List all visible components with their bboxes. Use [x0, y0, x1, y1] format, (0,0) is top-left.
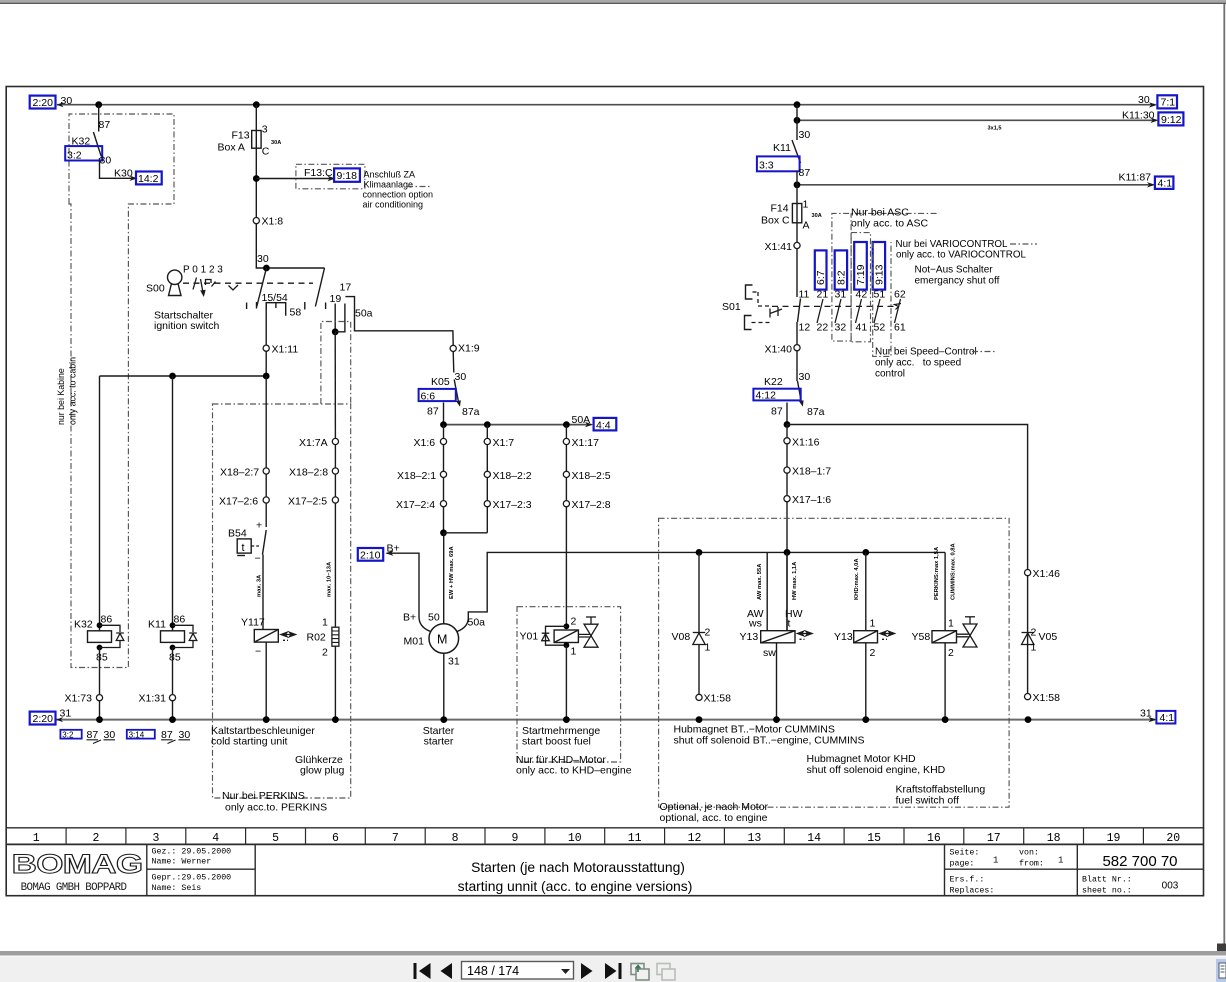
position check 3 [229, 285, 239, 290]
viewer top toolbar edge [0, 0, 1226, 4]
icon next view (disabled) [657, 964, 675, 981]
svg-text:9:18: 9:18 [337, 170, 358, 182]
svg-text:B54: B54 [228, 528, 247, 540]
contact blade 15/54 [257, 268, 267, 307]
arrow into 4:1 bottom [1149, 717, 1157, 722]
relay contact K32 (top) wire from bus [98, 105, 100, 132]
connector X17-2:3 [484, 499, 532, 511]
svg-text:2: 2 [571, 616, 577, 628]
wire K11 coil to rail [172, 648, 174, 720]
nav button prev page [441, 963, 453, 979]
wire B+ from motor [387, 553, 431, 631]
svg-text:X1:31: X1:31 [139, 693, 167, 705]
wire bracket to X1:11 [265, 303, 267, 376]
nav button last page [605, 963, 622, 979]
S01 actuation dashed line [772, 305, 896, 307]
svg-text:X1:46: X1:46 [1033, 568, 1061, 580]
svg-text:Klimaanlage: Klimaanlage [364, 180, 414, 190]
svg-text:Replaces:: Replaces: [950, 886, 995, 896]
svg-text:12: 12 [799, 322, 811, 334]
svg-text:14: 14 [807, 832, 821, 845]
glow plug column wires [334, 442, 336, 628]
svg-text:X1:58: X1:58 [704, 693, 732, 705]
label Hubmagnet KHD [807, 753, 946, 776]
connector X1:31 [139, 693, 176, 705]
connector X17-2:4 [396, 499, 447, 511]
S01 dashed arrow tip [895, 304, 902, 310]
wire K11:30 [797, 119, 1157, 121]
svg-text:3x1,5: 3x1,5 [988, 126, 1002, 132]
connector X17-1:6 [784, 494, 831, 506]
label Starter/starter [423, 725, 455, 748]
svg-text:Y13: Y13 [834, 631, 853, 643]
solenoid valve Y58 [912, 552, 957, 659]
svg-text:4: 4 [212, 832, 219, 845]
svg-text:50a: 50a [355, 308, 373, 320]
svg-text:X17–2:3: X17–2:3 [493, 499, 532, 511]
label Nur bei VARIOCONTROL [896, 239, 1027, 261]
svg-text:31: 31 [60, 708, 72, 720]
connector X1:73 [65, 693, 103, 705]
svg-text:1: 1 [1058, 856, 1063, 866]
arrow into 9:18 [328, 176, 336, 181]
svg-text:2: 2 [870, 647, 876, 659]
svg-text:Y01: Y01 [520, 631, 539, 643]
svg-text:6: 6 [332, 832, 339, 845]
ignition key symbol S00 [168, 270, 182, 295]
svg-text:14:2: 14:2 [138, 173, 159, 185]
connector X1:41 [765, 241, 801, 253]
svg-text:Not−Aus Schalter: Not−Aus Schalter [915, 265, 994, 276]
svg-text:2: 2 [93, 832, 100, 845]
contact ref 87/30 under K11 [161, 729, 190, 744]
diode V05 [1022, 570, 1058, 697]
svg-text:50a: 50a [468, 617, 486, 629]
svg-text:X1:58: X1:58 [1033, 692, 1061, 704]
connector X1:7 [484, 437, 514, 449]
wire down to K11 coil [172, 376, 174, 631]
junction dots distribution [696, 549, 703, 556]
svg-text:3:2: 3:2 [62, 730, 74, 739]
dash-dot box VARIOCONTROL [851, 233, 870, 342]
svg-text:2: 2 [1031, 627, 1037, 639]
svg-text:R02: R02 [307, 632, 326, 644]
svg-text:X18–1:7: X18–1:7 [792, 466, 831, 478]
position slash P [193, 278, 197, 290]
svg-text:nur bei Kabine: nur bei Kabine [56, 368, 66, 425]
svg-text:Name: Seis: Name: Seis [152, 883, 202, 893]
svg-text:31: 31 [448, 656, 460, 668]
connector X1:11 [263, 344, 298, 356]
label Nur fuer KHD-Motor [516, 754, 632, 777]
connector X1:8 [253, 216, 283, 228]
svg-text:from:: from: [1019, 859, 1044, 869]
rail dot R02 [332, 716, 339, 723]
svg-text:Y58: Y58 [912, 631, 931, 643]
svg-text:85: 85 [169, 652, 181, 664]
connector X1:46 [1025, 568, 1061, 580]
svg-text:KHD:max. 4,0A: KHD:max. 4,0A [854, 558, 860, 600]
svg-text:2:20: 2:20 [33, 97, 54, 109]
svg-text:86: 86 [174, 614, 186, 626]
valve butterfly Y01 [578, 617, 598, 647]
svg-text:K22: K22 [764, 376, 783, 388]
connector X18-1:7 [784, 466, 831, 478]
svg-text:2:20: 2:20 [33, 713, 54, 725]
wire Y13 CUMMINS to rail [776, 643, 778, 720]
svg-text:ignition switch: ignition switch [154, 320, 220, 332]
svg-text:58: 58 [290, 307, 302, 319]
svg-text:2: 2 [322, 647, 328, 659]
svg-text:Ers.f.:: Ers.f.: [950, 875, 985, 885]
svg-text:7: 7 [392, 832, 399, 845]
S01 button contact mark [770, 307, 782, 318]
ref box 4:1 bottom [1156, 711, 1175, 724]
wire K11:87 [797, 184, 1154, 186]
viewer corner square bottom right [1217, 944, 1226, 952]
svg-text:17: 17 [340, 282, 352, 294]
relay contact K05 blade [454, 380, 461, 407]
ref box 4:1 top [1155, 177, 1174, 190]
actuate arrow Y117 [281, 632, 296, 640]
svg-text:2: 2 [705, 627, 711, 639]
relay coil K32 [74, 614, 112, 664]
svg-text:Nur bei VARIOCONTROL: Nur bei VARIOCONTROL [896, 239, 1009, 250]
viewer right window edge [1223, 4, 1225, 944]
svg-text:18: 18 [1047, 832, 1061, 845]
svg-text:X1:16: X1:16 [792, 436, 820, 448]
terminal ticks right [305, 302, 326, 310]
connector X17-2:8 [563, 499, 610, 511]
svg-text:X18–2:1: X18–2:1 [397, 470, 436, 482]
label Kaltstartbeschleuniger [211, 725, 315, 748]
svg-text:87: 87 [87, 729, 99, 741]
connector X17-2:6 [219, 496, 269, 508]
svg-text:connection option: connection option [363, 190, 434, 200]
svg-text:only acc. to ASC: only acc. to ASC [851, 218, 928, 230]
junction dot K11 branch [169, 373, 176, 380]
wire HW winding [786, 552, 788, 630]
svg-text:K11: K11 [773, 142, 791, 154]
svg-text:9:12: 9:12 [1161, 114, 1182, 126]
svg-text:1: 1 [1031, 642, 1037, 654]
valve butterfly Y58 [957, 617, 978, 647]
ref box 3:2 under rail [60, 730, 81, 740]
ref box 2:10 [358, 548, 383, 561]
svg-text:X1:7A: X1:7A [299, 437, 328, 449]
svg-text:optional, acc. to engine: optional, acc. to engine [660, 812, 768, 824]
svg-text:PERKINS:max 1,5A: PERKINS:max 1,5A [934, 546, 940, 600]
label Startmehrmenge [522, 725, 600, 748]
junction dot column A/B [440, 529, 447, 536]
ref box 6:6 [419, 389, 456, 402]
dash-dot box start boost fuel [517, 607, 621, 762]
ref box 3:2 (K32 contact) [65, 146, 102, 161]
position slash 2 [212, 282, 216, 287]
wire Y58 to rail [944, 643, 946, 720]
svg-text:X17–1:6: X17–1:6 [792, 494, 831, 506]
wire rail 31 bottom [57, 719, 1156, 721]
wire F14 down [796, 223, 798, 297]
dash-dot box 50a upper (narrow) [321, 322, 351, 405]
wire Y01 to rail [565, 645, 567, 719]
S01 contact 31-32 [835, 289, 847, 334]
contact ref 87/30 under K32 [87, 729, 116, 744]
solenoid Y13 AW/HW labels [747, 608, 803, 630]
svg-text:−: − [255, 646, 261, 658]
fuse F13 [218, 124, 282, 158]
label Nur bei PERKINS [222, 790, 327, 814]
wire 19 down to X1:7A column [334, 332, 336, 442]
svg-text:Box A: Box A [218, 142, 245, 154]
arrow into 4:4 [585, 422, 593, 427]
svg-text:1: 1 [705, 642, 711, 654]
BOMAG logo [12, 849, 143, 894]
position mark 1 (L-shape) [206, 280, 212, 286]
svg-text:4:12: 4:12 [756, 390, 777, 402]
svg-text:87: 87 [161, 729, 173, 741]
relay coil Y117 [241, 617, 278, 658]
wire bus 30 top [57, 104, 1156, 106]
wire K22 87 down to junction [786, 403, 788, 425]
ref box 9:18 [334, 168, 360, 182]
label Not-Aus Schalter [915, 265, 1000, 287]
svg-text:003: 003 [1162, 881, 1179, 892]
svg-text:12: 12 [688, 832, 702, 845]
terminal ticks left [247, 302, 257, 309]
rail dot Y117 [263, 716, 270, 723]
svg-text:CUMMINS:max. 0,8A: CUMMINS:max. 0,8A [951, 542, 957, 600]
svg-text:only acc. to KHD–engine: only acc. to KHD–engine [516, 765, 632, 777]
rail junction dots left [96, 716, 103, 723]
junction dot F13:C [253, 175, 260, 182]
svg-text:von:: von: [1019, 849, 1039, 858]
arrow into 4:1 [1147, 182, 1155, 187]
svg-text:9: 9 [512, 832, 519, 845]
grid reference cell dividers [66, 828, 1143, 845]
svg-text:t: t [242, 542, 245, 554]
wire K32 coil to rail [99, 648, 101, 720]
label Nur bei Speed-Control [875, 347, 977, 380]
svg-text:ws: ws [748, 618, 762, 630]
S01 contact 51-52 [874, 289, 886, 334]
svg-text:9:13: 9:13 [874, 264, 886, 285]
svg-text:EW + HW max. 69A: EW + HW max. 69A [449, 546, 455, 599]
dash-dot box Hubmagnet optional [659, 518, 1010, 807]
dash-dot box ASC [832, 213, 937, 341]
starter column B wire [486, 425, 488, 533]
svg-text:+: + [256, 520, 262, 532]
solenoid coil Y13 (CUMMINS) [740, 631, 796, 659]
svg-text:32: 32 [835, 322, 847, 334]
contact blade K32 [93, 132, 101, 156]
svg-text:X1:9: X1:9 [458, 343, 480, 355]
svg-text:8:2: 8:2 [836, 270, 848, 285]
svg-text:control: control [875, 369, 905, 380]
starter motor M01 [403, 612, 485, 668]
junction dot K22 [784, 421, 791, 428]
connector X18-2:7 [220, 467, 269, 479]
svg-text:F14: F14 [771, 203, 789, 215]
svg-text:BOMAG GMBH BOPPARD: BOMAG GMBH BOPPARD [21, 882, 127, 894]
connector X18-2:8 [289, 467, 339, 479]
svg-text:Y13: Y13 [740, 631, 759, 643]
svg-text:X1:11: X1:11 [272, 344, 299, 356]
svg-text:19: 19 [1107, 832, 1121, 845]
suppressor diode K32 [100, 625, 124, 647]
svg-text:cold starting unit: cold starting unit [211, 736, 288, 748]
svg-text:X1:17: X1:17 [572, 437, 600, 449]
ref box 9:13 (rotated) [873, 242, 886, 290]
nav button next page [581, 963, 593, 979]
terminal 19 wire down [334, 304, 336, 332]
svg-text:30A: 30A [271, 140, 281, 146]
svg-text:17: 17 [987, 832, 1001, 845]
svg-text:page:: page: [950, 860, 975, 869]
svg-text:AW max. 55A: AW max. 55A [757, 563, 763, 600]
starter column A wire [443, 425, 445, 533]
wire K22 main descent [786, 425, 788, 631]
connector X1:6 [414, 437, 447, 449]
arrow into 14:2 [130, 176, 138, 181]
wire to V05 branch [787, 425, 1028, 571]
connector X1:40 [765, 344, 801, 356]
wire K30 to 14:2 [100, 158, 137, 178]
rail dot Y13 CUMMINS [773, 716, 780, 723]
svg-text:87a: 87a [807, 406, 825, 418]
wire X1:9 to K05 [452, 352, 455, 373]
wire 30 into switch top bar [256, 264, 324, 268]
emergency stop S01 mechanism [745, 285, 753, 330]
junction dot K11:87 [794, 181, 801, 188]
svg-text:start boost fuel: start boost fuel [522, 736, 591, 748]
svg-text:V05: V05 [1039, 631, 1058, 643]
relay contact K22 blade [798, 381, 804, 407]
svg-text:fuel switch off: fuel switch off [896, 795, 960, 807]
svg-text:50: 50 [428, 612, 440, 624]
svg-text:starting unnit (acc. to engine: starting unnit (acc. to engine versions) [458, 878, 693, 894]
wire K05 87 to rail 50A [443, 403, 445, 425]
svg-text:C: C [262, 146, 270, 158]
svg-text:X18–2:2: X18–2:2 [493, 470, 532, 482]
connector X1:58 (V08) [696, 693, 731, 705]
grid reference row top line [6, 827, 1203, 829]
svg-text:S00: S00 [146, 283, 165, 295]
partial sidebar button bottom right [1216, 959, 1226, 982]
wire bus30 down to F13 [255, 105, 257, 131]
rail dot V08 [696, 716, 703, 723]
svg-text:19: 19 [330, 293, 342, 305]
icon previous view [631, 964, 649, 981]
junction dot 19 [332, 328, 339, 335]
wire motor 31 to rail [443, 653, 445, 719]
svg-text:30: 30 [799, 129, 811, 141]
connector X18-2:5 [563, 470, 610, 482]
position arrow 0 (down) [200, 279, 206, 297]
svg-text:1: 1 [803, 199, 809, 211]
svg-text:X17–2:4: X17–2:4 [396, 499, 435, 511]
svg-text:52: 52 [874, 322, 886, 334]
svg-text:16: 16 [927, 832, 941, 845]
dash-dot box air conditioning option [296, 164, 365, 189]
ref box 6:7 (rotated) [815, 250, 827, 289]
title block page cell [950, 848, 1132, 896]
svg-text:8: 8 [452, 832, 459, 845]
svg-text:85: 85 [96, 652, 108, 664]
ref box 2:20 top left [30, 96, 56, 109]
S01 contact 62-61 [894, 289, 906, 334]
ref box 3:14 under rail [127, 730, 155, 740]
dash-dot box Nur bei PERKINS [213, 404, 351, 798]
junction dots on bus 30 [95, 101, 102, 108]
actuate arrow Y13 KHD [880, 631, 895, 639]
thermo switch B54 [228, 520, 266, 565]
wire ignition feed to coils (horizontal) [100, 375, 267, 377]
svg-text:V08: V08 [672, 631, 691, 643]
svg-text:30: 30 [61, 95, 73, 107]
svg-text:Y117: Y117 [241, 617, 265, 629]
svg-text:X1:6: X1:6 [414, 437, 436, 449]
fuse F14 [761, 199, 822, 232]
connector X1:17 [563, 437, 599, 449]
svg-text:1: 1 [993, 856, 998, 866]
svg-text:X1:8: X1:8 [262, 216, 284, 228]
svg-text:K11:87: K11:87 [1119, 172, 1152, 184]
svg-text:X17–2:6: X17–2:6 [219, 496, 258, 508]
svg-text:M: M [437, 633, 447, 647]
S01 contact 42-41 [856, 289, 868, 334]
junction dots rail 50A [440, 421, 447, 428]
svg-text:t: t [788, 618, 791, 630]
svg-text:11: 11 [628, 832, 642, 845]
dash-dot option box cabin (L-shape around K32) [69, 114, 174, 668]
svg-text:582 700 70: 582 700 70 [1102, 853, 1177, 870]
arrow into 2:20 [57, 102, 64, 107]
ref box 7:1 [1157, 95, 1177, 108]
junction dot X1:11 column [263, 373, 270, 380]
svg-text:X17–2:8: X17–2:8 [572, 499, 611, 511]
connector X1:7A [299, 437, 339, 449]
connector X1:16 [784, 436, 820, 448]
svg-text:87: 87 [427, 406, 439, 418]
svg-text:2:10: 2:10 [360, 549, 381, 561]
actuate arrow Y13 CUMMINS [798, 631, 813, 639]
terminal 17 wire to 50a [345, 297, 453, 346]
svg-text:B+: B+ [387, 543, 400, 555]
svg-text:7:19: 7:19 [855, 264, 867, 285]
svg-text:Anschluß ZA: Anschluß ZA [364, 170, 416, 180]
svg-text:Starten (je nach Motorausstatt: Starten (je nach Motorausstattung) [471, 859, 685, 875]
svg-text:2: 2 [948, 647, 954, 659]
svg-text:BOMAG: BOMAG [12, 849, 143, 879]
label Kraftstoffabstellung [896, 784, 986, 807]
wire 50a from motor [457, 552, 660, 631]
svg-text:5: 5 [272, 832, 279, 845]
svg-text:emergancy shut off: emergancy shut off [915, 276, 1000, 287]
nav button first page [414, 963, 431, 979]
svg-text:41: 41 [856, 322, 868, 334]
starter column C wire [565, 425, 567, 627]
svg-text:X18–2:5: X18–2:5 [572, 470, 611, 482]
switch actuation dashed line [183, 282, 313, 284]
svg-text:X1:73: X1:73 [65, 693, 93, 705]
svg-text:1: 1 [322, 617, 328, 629]
svg-text:Nur bei PERKINS: Nur bei PERKINS [222, 790, 305, 802]
solenoid coil Y13 (KHD) [834, 552, 878, 659]
svg-text:87: 87 [771, 406, 783, 418]
wire down to K32 coil [99, 376, 101, 631]
svg-text:F13: F13 [232, 130, 250, 142]
